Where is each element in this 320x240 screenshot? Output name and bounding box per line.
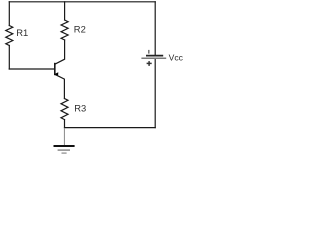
wire base wire xyxy=(9,68,54,70)
battery minus tick xyxy=(148,50,149,54)
wire R3 bottom lead xyxy=(64,120,66,128)
wire bottom rail xyxy=(65,127,156,129)
svg-text:R3: R3 xyxy=(74,103,86,114)
resistor R3 xyxy=(61,99,68,120)
wire right rail upper xyxy=(154,2,156,56)
transistor Q1 base bar xyxy=(54,64,56,75)
transistor Q1 emitter arrow xyxy=(54,72,58,75)
wire R2 bottom lead (collector) xyxy=(55,40,64,64)
ground bar 3 xyxy=(62,152,67,154)
ground bar 1 xyxy=(54,145,75,147)
svg-text:R1: R1 xyxy=(16,27,28,38)
ground bar 2 xyxy=(58,149,70,151)
battery plus sign xyxy=(147,61,152,66)
wire R1 top lead xyxy=(8,2,10,26)
battery V1 top plate xyxy=(146,55,163,57)
resistor R1 xyxy=(6,26,13,46)
battery V1 bottom plate xyxy=(141,57,166,59)
wire R2 top lead xyxy=(64,2,66,20)
transistor Q1 emitter xyxy=(55,74,65,98)
wire R1 bottom lead xyxy=(8,46,10,70)
resistor R2 xyxy=(61,20,68,40)
wire top rail xyxy=(9,1,155,3)
ground stem xyxy=(63,128,65,145)
svg-text:Vcc: Vcc xyxy=(169,53,184,63)
wire right rail lower xyxy=(154,58,156,127)
svg-text:R2: R2 xyxy=(74,23,86,34)
